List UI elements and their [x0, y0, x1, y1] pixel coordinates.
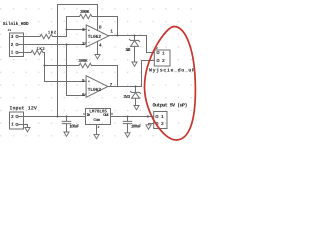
- svg-text:100uF: 100uF: [69, 125, 79, 130]
- svg-text:390K: 390K: [78, 59, 88, 64]
- svg-text:1: 1: [161, 114, 164, 120]
- svg-text:Silnik_HDD: Silnik_HDD: [3, 21, 29, 27]
- svg-text:3V3: 3V3: [123, 95, 130, 100]
- svg-text:8: 8: [99, 25, 102, 31]
- svg-text:1K2: 1K2: [48, 31, 57, 36]
- svg-text:Out: Out: [103, 113, 110, 118]
- svg-text:In: In: [87, 113, 91, 118]
- svg-text:6: 6: [82, 92, 85, 98]
- svg-text:3V3: 3V3: [125, 48, 131, 53]
- svg-text:2: 2: [11, 42, 14, 48]
- svg-text:2: 2: [161, 121, 164, 127]
- svg-text:J1: J1: [8, 28, 12, 32]
- svg-text:Output 5V (uP): Output 5V (uP): [153, 103, 188, 109]
- svg-text:3: 3: [111, 112, 113, 116]
- svg-text:4: 4: [99, 43, 102, 49]
- svg-text:Com: Com: [93, 118, 100, 123]
- svg-text:5: 5: [82, 78, 85, 84]
- svg-text:Wyjscie_do_uP: Wyjscie_do_uP: [149, 67, 195, 73]
- svg-text:-: -: [88, 92, 90, 96]
- svg-text:3: 3: [82, 27, 85, 33]
- svg-text:TL062: TL062: [88, 34, 102, 40]
- svg-text:1: 1: [83, 112, 85, 116]
- svg-text:1K2: 1K2: [36, 47, 45, 52]
- svg-text:Input 12V: Input 12V: [9, 105, 37, 111]
- svg-text:2: 2: [82, 41, 85, 47]
- svg-text:390K: 390K: [80, 9, 90, 15]
- svg-text:1: 1: [110, 29, 113, 35]
- svg-text:1: 1: [11, 122, 14, 128]
- svg-text:3: 3: [11, 34, 14, 40]
- svg-text:100uF: 100uF: [131, 125, 142, 130]
- svg-text:2: 2: [11, 114, 14, 120]
- svg-text:1: 1: [162, 51, 165, 57]
- svg-text:2: 2: [98, 125, 100, 129]
- svg-text:2: 2: [162, 58, 165, 64]
- svg-text:-: -: [88, 41, 90, 45]
- svg-text:1: 1: [11, 50, 14, 56]
- svg-text:7: 7: [110, 82, 113, 88]
